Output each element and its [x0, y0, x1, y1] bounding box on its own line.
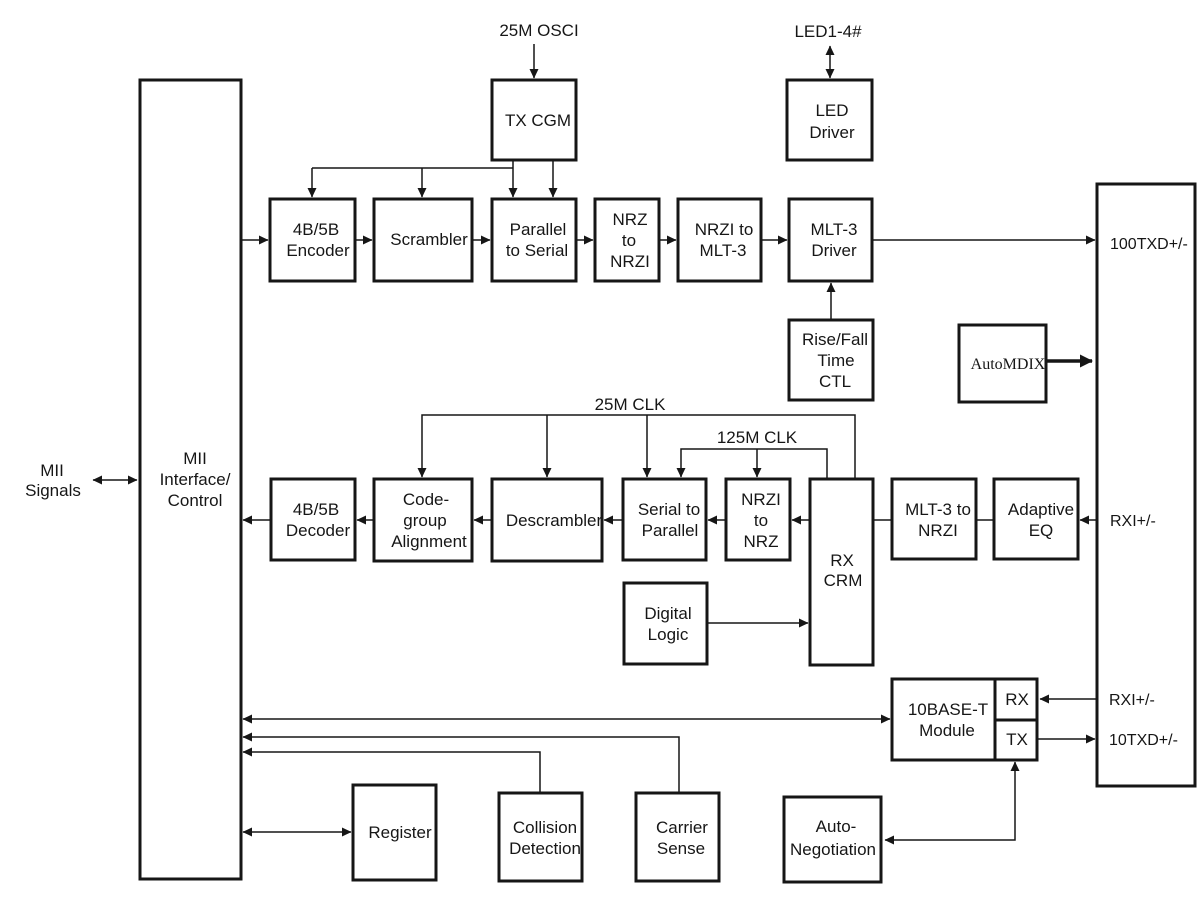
block Adaptive EQ — [994, 479, 1078, 559]
svg-text:Rise/Fall: Rise/Fall — [802, 330, 868, 349]
node MII Signals label — [25, 461, 81, 500]
svg-text:RX: RX — [830, 551, 854, 570]
block Parallel to Serial — [492, 199, 576, 281]
wire Parallel to Serial to NRZ to NRZI — [576, 239, 593, 241]
block MII Interface/Control — [140, 80, 241, 879]
block Digital Logic — [624, 583, 707, 664]
block Code-group Alignment — [374, 479, 472, 561]
wire Auto-Negotiation to TX double arrow — [885, 762, 1015, 840]
svg-text:Alignment: Alignment — [391, 532, 467, 551]
svg-text:to: to — [754, 511, 768, 530]
svg-text:Sense: Sense — [657, 839, 705, 858]
block RX CRM — [810, 479, 873, 665]
svg-text:RX: RX — [1005, 690, 1029, 709]
wire MLT-3 Driver to 100TXD — [872, 239, 1095, 241]
wire RXI to Adaptive EQ — [1080, 519, 1097, 521]
svg-text:Logic: Logic — [648, 625, 689, 644]
svg-text:4B/5B: 4B/5B — [293, 220, 339, 239]
svg-text:Register: Register — [368, 823, 432, 842]
svg-text:125M CLK: 125M CLK — [717, 428, 798, 447]
svg-text:RXI+/-: RXI+/- — [1109, 692, 1155, 709]
svg-text:Control: Control — [168, 491, 223, 510]
wire AutoMDIX to line box thick arrow — [1046, 359, 1092, 363]
wire Serial to Parallel to Descrambler — [604, 519, 623, 521]
wire MII Signals double arrow — [93, 479, 137, 481]
wire RX CRM to NRZI to NRZ — [792, 519, 810, 521]
svg-text:MII: MII — [183, 449, 207, 468]
block 4B/5B Encoder — [270, 199, 355, 281]
wire 4B/5B Encoder to Scrambler — [355, 239, 372, 241]
block Rise/Fall Time CTL — [789, 320, 873, 400]
wire TX CGM drop to Parallel to Serial right — [552, 160, 554, 197]
svg-text:Time: Time — [817, 351, 854, 370]
svg-text:Module: Module — [919, 721, 975, 740]
svg-text:LED1-4#: LED1-4# — [794, 22, 862, 41]
block TX CGM — [492, 80, 576, 160]
svg-text:Auto-: Auto- — [816, 817, 857, 836]
wire MLT-3 to NRZI to RX CRM — [873, 519, 892, 521]
svg-text:Encoder: Encoder — [286, 241, 350, 260]
block Carrier Sense — [636, 793, 719, 881]
block NRZI to NRZ — [726, 479, 790, 560]
svg-text:25M OSCI: 25M OSCI — [499, 21, 578, 40]
wire NRZI to NRZ to Serial to Parallel — [708, 519, 726, 521]
wire Rise/Fall Time CTL to MLT-3 Driver — [830, 283, 832, 320]
svg-text:Signals: Signals — [25, 481, 81, 500]
wire Adaptive EQ to MLT-3 to NRZI — [976, 519, 994, 521]
svg-text:Digital: Digital — [644, 604, 691, 623]
wire Digital Logic to RX CRM — [707, 622, 808, 624]
svg-text:Parallel: Parallel — [510, 220, 567, 239]
svg-text:Code-: Code- — [403, 490, 449, 509]
svg-text:LED: LED — [815, 101, 848, 120]
svg-text:4B/5B: 4B/5B — [293, 500, 339, 519]
svg-text:Negotiation: Negotiation — [790, 840, 876, 859]
wire Collision Detection to MII — [243, 752, 540, 793]
svg-text:TX: TX — [1006, 730, 1028, 749]
wire 25M CLK drop to Serial to Parallel — [646, 415, 648, 477]
wire MII to 4B/5B Encoder — [241, 239, 268, 241]
svg-text:EQ: EQ — [1029, 521, 1054, 540]
svg-text:to: to — [622, 231, 636, 250]
svg-text:AutoMDIX: AutoMDIX — [971, 356, 1046, 373]
wire clock drop to Scrambler — [421, 168, 423, 197]
svg-text:Interface/: Interface/ — [160, 470, 231, 489]
svg-text:Driver: Driver — [809, 123, 855, 142]
wire NRZ to NRZI to NRZI to MLT-3 — [659, 239, 676, 241]
block Collision Detection — [499, 793, 582, 881]
svg-text:MLT-3: MLT-3 — [700, 241, 747, 260]
block MLT-3 Driver — [789, 199, 872, 281]
svg-text:NRZI: NRZI — [610, 252, 650, 271]
svg-text:RXI+/-: RXI+/- — [1110, 513, 1156, 530]
svg-text:MLT-3: MLT-3 — [811, 220, 858, 239]
wire 125M CLK drop to NRZI to NRZ — [756, 449, 758, 477]
svg-text:Serial to: Serial to — [638, 500, 700, 519]
block 10BASE-T Module — [892, 679, 1037, 760]
block NRZ to NRZI — [595, 199, 659, 281]
svg-text:Detection: Detection — [509, 839, 581, 858]
wire 25M CLK drop to Descrambler — [546, 415, 548, 477]
svg-text:Parallel: Parallel — [642, 521, 699, 540]
wire NRZI to MLT-3 to MLT-3 Driver — [761, 239, 787, 241]
svg-text:NRZ: NRZ — [613, 210, 648, 229]
svg-text:Scrambler: Scrambler — [390, 230, 468, 249]
wire RXI to RX — [1040, 698, 1097, 700]
svg-text:NRZ: NRZ — [744, 532, 779, 551]
block MLT-3 to NRZI — [892, 479, 976, 559]
block 4B/5B Decoder — [271, 479, 355, 560]
block Descrambler — [492, 479, 603, 561]
wire MII to Register double arrow — [243, 831, 351, 833]
wire TX CGM drop to Parallel to Serial left — [512, 160, 514, 197]
block line interface (right tall box) — [1097, 184, 1195, 786]
block LED Driver — [787, 80, 872, 160]
svg-text:CTL: CTL — [819, 372, 851, 391]
svg-text:100TXD+/-: 100TXD+/- — [1110, 236, 1188, 253]
block NRZI to MLT-3 — [678, 199, 761, 281]
wire LED1-4# to LED Driver double arrow — [829, 46, 831, 78]
wire TX CGM clock branch horizontal — [312, 167, 513, 169]
wire MII to 10BASE-T Module double arrow — [243, 718, 890, 720]
svg-text:Driver: Driver — [811, 241, 857, 260]
wire Scrambler to Parallel to Serial — [472, 239, 490, 241]
svg-text:NRZI: NRZI — [918, 521, 958, 540]
wire 125M CLK net — [681, 449, 827, 479]
svg-text:Adaptive: Adaptive — [1008, 500, 1074, 519]
wire 25M CLK net — [422, 415, 855, 479]
wire clock drop to 4B/5B Encoder — [311, 168, 313, 197]
block Serial to Parallel — [623, 479, 706, 560]
svg-text:Carrier: Carrier — [656, 818, 708, 837]
block Auto-Negotiation — [784, 797, 881, 882]
svg-text:10BASE-T: 10BASE-T — [908, 700, 988, 719]
wire Code-group Alignment to 4B/5B Decoder — [357, 519, 374, 521]
svg-text:group: group — [403, 511, 446, 530]
wire 4B/5B Decoder to MII — [243, 519, 271, 521]
svg-text:Decoder: Decoder — [286, 521, 351, 540]
svg-text:NRZI to: NRZI to — [695, 220, 754, 239]
svg-text:10TXD+/-: 10TXD+/- — [1109, 732, 1178, 749]
block Scrambler — [374, 199, 472, 281]
svg-text:NRZI: NRZI — [741, 490, 781, 509]
block AutoMDIX — [959, 325, 1046, 402]
wire 25M OSCI to TX CGM — [533, 44, 535, 78]
block Register — [353, 785, 436, 880]
svg-text:TX CGM: TX CGM — [505, 111, 571, 130]
svg-text:CRM: CRM — [824, 571, 863, 590]
svg-text:MLT-3 to: MLT-3 to — [905, 500, 971, 519]
svg-text:Descrambler: Descrambler — [506, 511, 603, 530]
svg-text:to Serial: to Serial — [506, 241, 568, 260]
svg-text:MII: MII — [40, 461, 64, 480]
svg-text:Collision: Collision — [513, 818, 577, 837]
wire Carrier Sense to MII — [243, 737, 679, 793]
wire TX to 10TXD — [1037, 738, 1095, 740]
svg-text:25M CLK: 25M CLK — [595, 395, 667, 414]
wire Descrambler to Code-group Alignment — [474, 519, 492, 521]
